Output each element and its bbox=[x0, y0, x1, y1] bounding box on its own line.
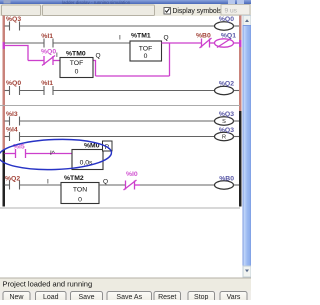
coil %Q0 bbox=[215, 22, 234, 30]
svg-text:%TM1: %TM1 bbox=[131, 33, 151, 40]
title bar bbox=[0, 0, 251, 5]
svg-text:Save As: Save As bbox=[116, 294, 142, 300]
wire bus TM0.Q to link (powered) bbox=[96, 75, 170, 77]
wire rung1 coil to right rail bbox=[234, 25, 240, 27]
left power rail bbox=[3, 16, 6, 207]
svg-text:%Q3: %Q3 bbox=[219, 111, 234, 118]
wire rung6 left rail to contact bbox=[5, 136, 10, 138]
svg-text:%TM2: %TM2 bbox=[64, 175, 84, 182]
wire rung8 contact to TM2 input bbox=[20, 184, 62, 186]
timer TM2 (TON) bbox=[61, 183, 99, 204]
contact %Q2 (NO, rung8) bbox=[10, 181, 20, 190]
svg-text:%Q3: %Q3 bbox=[219, 127, 234, 134]
button row bbox=[0, 291, 251, 304]
svg-text:Stop: Stop bbox=[194, 294, 209, 300]
contact %B0 (NC, powered) bbox=[200, 38, 212, 48]
checkbox Display symbols bbox=[164, 8, 222, 16]
svg-text:TOF: TOF bbox=[70, 60, 83, 67]
svg-text:TON: TON bbox=[73, 187, 87, 194]
wire rung1 left rail to contact bbox=[5, 25, 10, 27]
wire rung2 contact to timer input bbox=[53, 42, 130, 44]
contact %I4 (NO) bbox=[10, 132, 20, 141]
wire coil %Q1 to right rail (powered) bbox=[234, 42, 239, 44]
svg-text:9 us: 9 us bbox=[225, 7, 238, 14]
wire rung7 contact to %M0 box (powered) bbox=[26, 153, 73, 155]
coil %B0 bbox=[215, 181, 234, 189]
svg-text:New: New bbox=[9, 294, 24, 300]
coil %Q3 set (S) bbox=[215, 117, 234, 125]
blue annotation ellipse bbox=[0, 138, 112, 172]
svg-text:%I4: %I4 bbox=[6, 127, 18, 134]
wire rung4 coil to right rail bbox=[234, 90, 240, 92]
svg-text:%B0: %B0 bbox=[196, 33, 211, 40]
wire rung3 left rail branch down (powered) bbox=[5, 46, 29, 61]
svg-text:S: S bbox=[222, 119, 226, 125]
svg-text:TOF: TOF bbox=[139, 46, 152, 53]
svg-text:%I1: %I1 bbox=[41, 33, 53, 40]
wire TM1.Q to contact %B0 (powered) bbox=[162, 42, 202, 44]
svg-text:I: I bbox=[56, 52, 58, 59]
wire between contacts rung4 bbox=[20, 90, 45, 92]
contact %I5 (NO, powered) bbox=[16, 149, 26, 158]
vertical scrollbar bbox=[243, 16, 251, 278]
svg-text:%Q0: %Q0 bbox=[41, 49, 56, 56]
svg-text:%B0: %B0 bbox=[219, 176, 234, 183]
svg-text:%Q0: %Q0 bbox=[219, 16, 234, 23]
svg-text:Load: Load bbox=[43, 294, 59, 300]
svg-text:%TM0: %TM0 bbox=[66, 51, 86, 58]
wire rung6 coil to right rail bbox=[234, 136, 240, 138]
contact %I3 (NO) bbox=[10, 117, 20, 126]
wire vertical link node TM outputs (powered) bbox=[169, 43, 171, 76]
svg-text:%Q2: %Q2 bbox=[5, 176, 20, 183]
svg-text:0: 0 bbox=[78, 196, 82, 203]
coil %Q3 reset (R) bbox=[215, 132, 234, 140]
function block %M0 bbox=[72, 150, 103, 170]
svg-text:%Q0: %Q0 bbox=[6, 80, 21, 87]
scan time box 9 us bbox=[221, 5, 250, 16]
svg-text:I: I bbox=[47, 179, 49, 186]
svg-text:%Q3: %Q3 bbox=[6, 16, 21, 23]
svg-text:0: 0 bbox=[144, 53, 148, 60]
wire rung5 contact to coil bbox=[20, 120, 215, 122]
contact %Q3 (NO) bbox=[10, 22, 20, 31]
timer TM0 (TOF) bbox=[60, 58, 93, 78]
wire rung1 contact to coil bbox=[20, 25, 215, 27]
wire rung2 left rail to contact bbox=[5, 42, 45, 44]
wire rung8 left rail to contact bbox=[5, 184, 10, 186]
svg-text:Vars: Vars bbox=[227, 294, 241, 300]
wire rung6 contact to coil bbox=[20, 136, 215, 138]
wire rung4 contact to coil bbox=[53, 90, 215, 92]
wire rung7 left rail to contact (powered) bbox=[5, 153, 16, 155]
contact %Q0 (NO, rung4) bbox=[10, 86, 20, 95]
right power rail bbox=[239, 16, 242, 207]
svg-text:Save: Save bbox=[79, 294, 95, 300]
contact %Q0 (NC, powered) bbox=[42, 56, 55, 66]
svg-text:R: R bbox=[222, 135, 226, 141]
contact %I1 (NO) bbox=[44, 39, 53, 48]
wire TM0.Q output jog (powered) bbox=[94, 61, 96, 77]
wire contact %B0 to coil %Q1 (powered) bbox=[210, 42, 215, 44]
wire rung5 coil to right rail bbox=[234, 120, 240, 122]
pin R box of %M0 bbox=[103, 141, 113, 151]
wire rung5 left rail to contact bbox=[5, 120, 10, 122]
coil %Q2 bbox=[215, 86, 234, 94]
svg-text:%Q1: %Q1 bbox=[221, 33, 236, 40]
wire contact %I0 to coil %B0 bbox=[140, 184, 215, 186]
wire TM2.Q to contact %I0 bbox=[99, 184, 125, 186]
contact %I1 (NO, rung4) bbox=[44, 86, 53, 95]
svg-text:%I1: %I1 bbox=[41, 80, 53, 87]
ladder bottom separator bbox=[0, 208, 240, 209]
contact %I0 (NC, powered) bbox=[124, 180, 141, 190]
svg-text:Reset: Reset bbox=[158, 294, 176, 300]
wire contact %Q0 to TM0 input (powered) bbox=[53, 60, 60, 62]
wire rung8 coil to right rail bbox=[234, 184, 240, 186]
svg-text:Project loaded and running: Project loaded and running bbox=[3, 280, 93, 289]
toolbar bbox=[0, 4, 251, 16]
coil %Q1 (negated, powered) bbox=[215, 39, 234, 48]
svg-text:I: I bbox=[119, 35, 121, 42]
wire rung4 left rail to contact bbox=[5, 90, 10, 92]
wire rung3 branch to contact (powered) bbox=[28, 60, 44, 62]
svg-text:%I3: %I3 bbox=[6, 111, 18, 118]
svg-text:%Q2: %Q2 bbox=[219, 81, 234, 88]
status bar bbox=[0, 278, 251, 291]
svg-text:%I0: %I0 bbox=[126, 171, 138, 178]
svg-text:Display symbols: Display symbols bbox=[173, 8, 223, 15]
timer TM1 (TOF) bbox=[130, 41, 162, 61]
rung block separator bbox=[0, 105, 240, 106]
svg-text:0: 0 bbox=[75, 68, 79, 75]
svg-text:Q: Q bbox=[164, 35, 169, 42]
svg-text:Q: Q bbox=[96, 53, 101, 60]
